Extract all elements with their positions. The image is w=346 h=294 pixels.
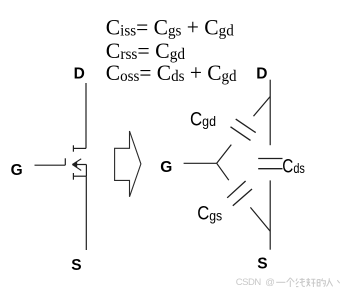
capacitor Cds bottom plate bbox=[258, 168, 282, 170]
capacitor Cgd lower plate bbox=[231, 127, 251, 141]
transistor Q1 gate bar bbox=[64, 158, 66, 165]
wire: left drain lead bbox=[85, 83, 87, 148]
block arrow (transform symbol) bbox=[115, 131, 141, 197]
wire: body-to-source vertical bbox=[85, 165, 87, 177]
wire: branch to Cgs bbox=[217, 163, 229, 180]
svg-text:G: G bbox=[160, 159, 172, 176]
capacitor Cgd upper plate bbox=[236, 119, 256, 133]
个 bbox=[287, 278, 295, 287]
svg-text:D: D bbox=[74, 66, 85, 83]
粹 bbox=[306, 278, 315, 287]
svg-text:CSDN: CSDN bbox=[236, 277, 262, 288]
svg-text:S: S bbox=[71, 257, 81, 274]
wire: Cgd to drain rail bbox=[254, 97, 271, 117]
svg-text:Cgd: Cgd bbox=[190, 109, 216, 130]
transistor Q1 drain channel tick bbox=[72, 145, 74, 151]
svg-text:S: S bbox=[257, 256, 267, 273]
纯 bbox=[296, 278, 305, 287]
wire: right vertical lower (Cds to S) bbox=[269, 180, 271, 249]
wire: left source lead bbox=[85, 176, 87, 250]
capacitor Cds top plate bbox=[258, 158, 282, 160]
capacitor Cgs upper plate bbox=[227, 181, 245, 198]
wire: Cgs to source rail bbox=[250, 207, 270, 231]
wire: right vertical upper (D to Cds) bbox=[269, 80, 271, 146]
svg-text:Cds: Cds bbox=[282, 155, 305, 177]
wire: branch to Cgd bbox=[217, 145, 232, 164]
svg-text:@: @ bbox=[265, 277, 275, 288]
wire: left gate lead bbox=[35, 164, 66, 166]
人 bbox=[326, 278, 332, 286]
一 bbox=[276, 281, 285, 283]
svg-text:D: D bbox=[256, 66, 267, 83]
的 bbox=[317, 278, 325, 286]
transistor Q1 source channel tick bbox=[72, 173, 74, 180]
svg-text:G: G bbox=[11, 162, 23, 179]
watermark CSDN @一个纯粹的人丶 bbox=[236, 277, 340, 288]
transistor Q1 body arrow bbox=[72, 159, 86, 171]
svg-text:Coss= Cds + Cgd: Coss= Cds + Cgd bbox=[106, 60, 237, 85]
wire: right gate lead bbox=[184, 162, 217, 164]
丶 bbox=[337, 280, 339, 283]
svg-text:Cgs: Cgs bbox=[197, 204, 222, 225]
svg-text:Ciss= Cgs + Cgd: Ciss= Cgs + Cgd bbox=[106, 14, 234, 39]
capacitor Cgs lower plate bbox=[233, 189, 252, 206]
wire: left source finger bbox=[73, 175, 86, 177]
wire: left drain finger bbox=[73, 147, 86, 149]
